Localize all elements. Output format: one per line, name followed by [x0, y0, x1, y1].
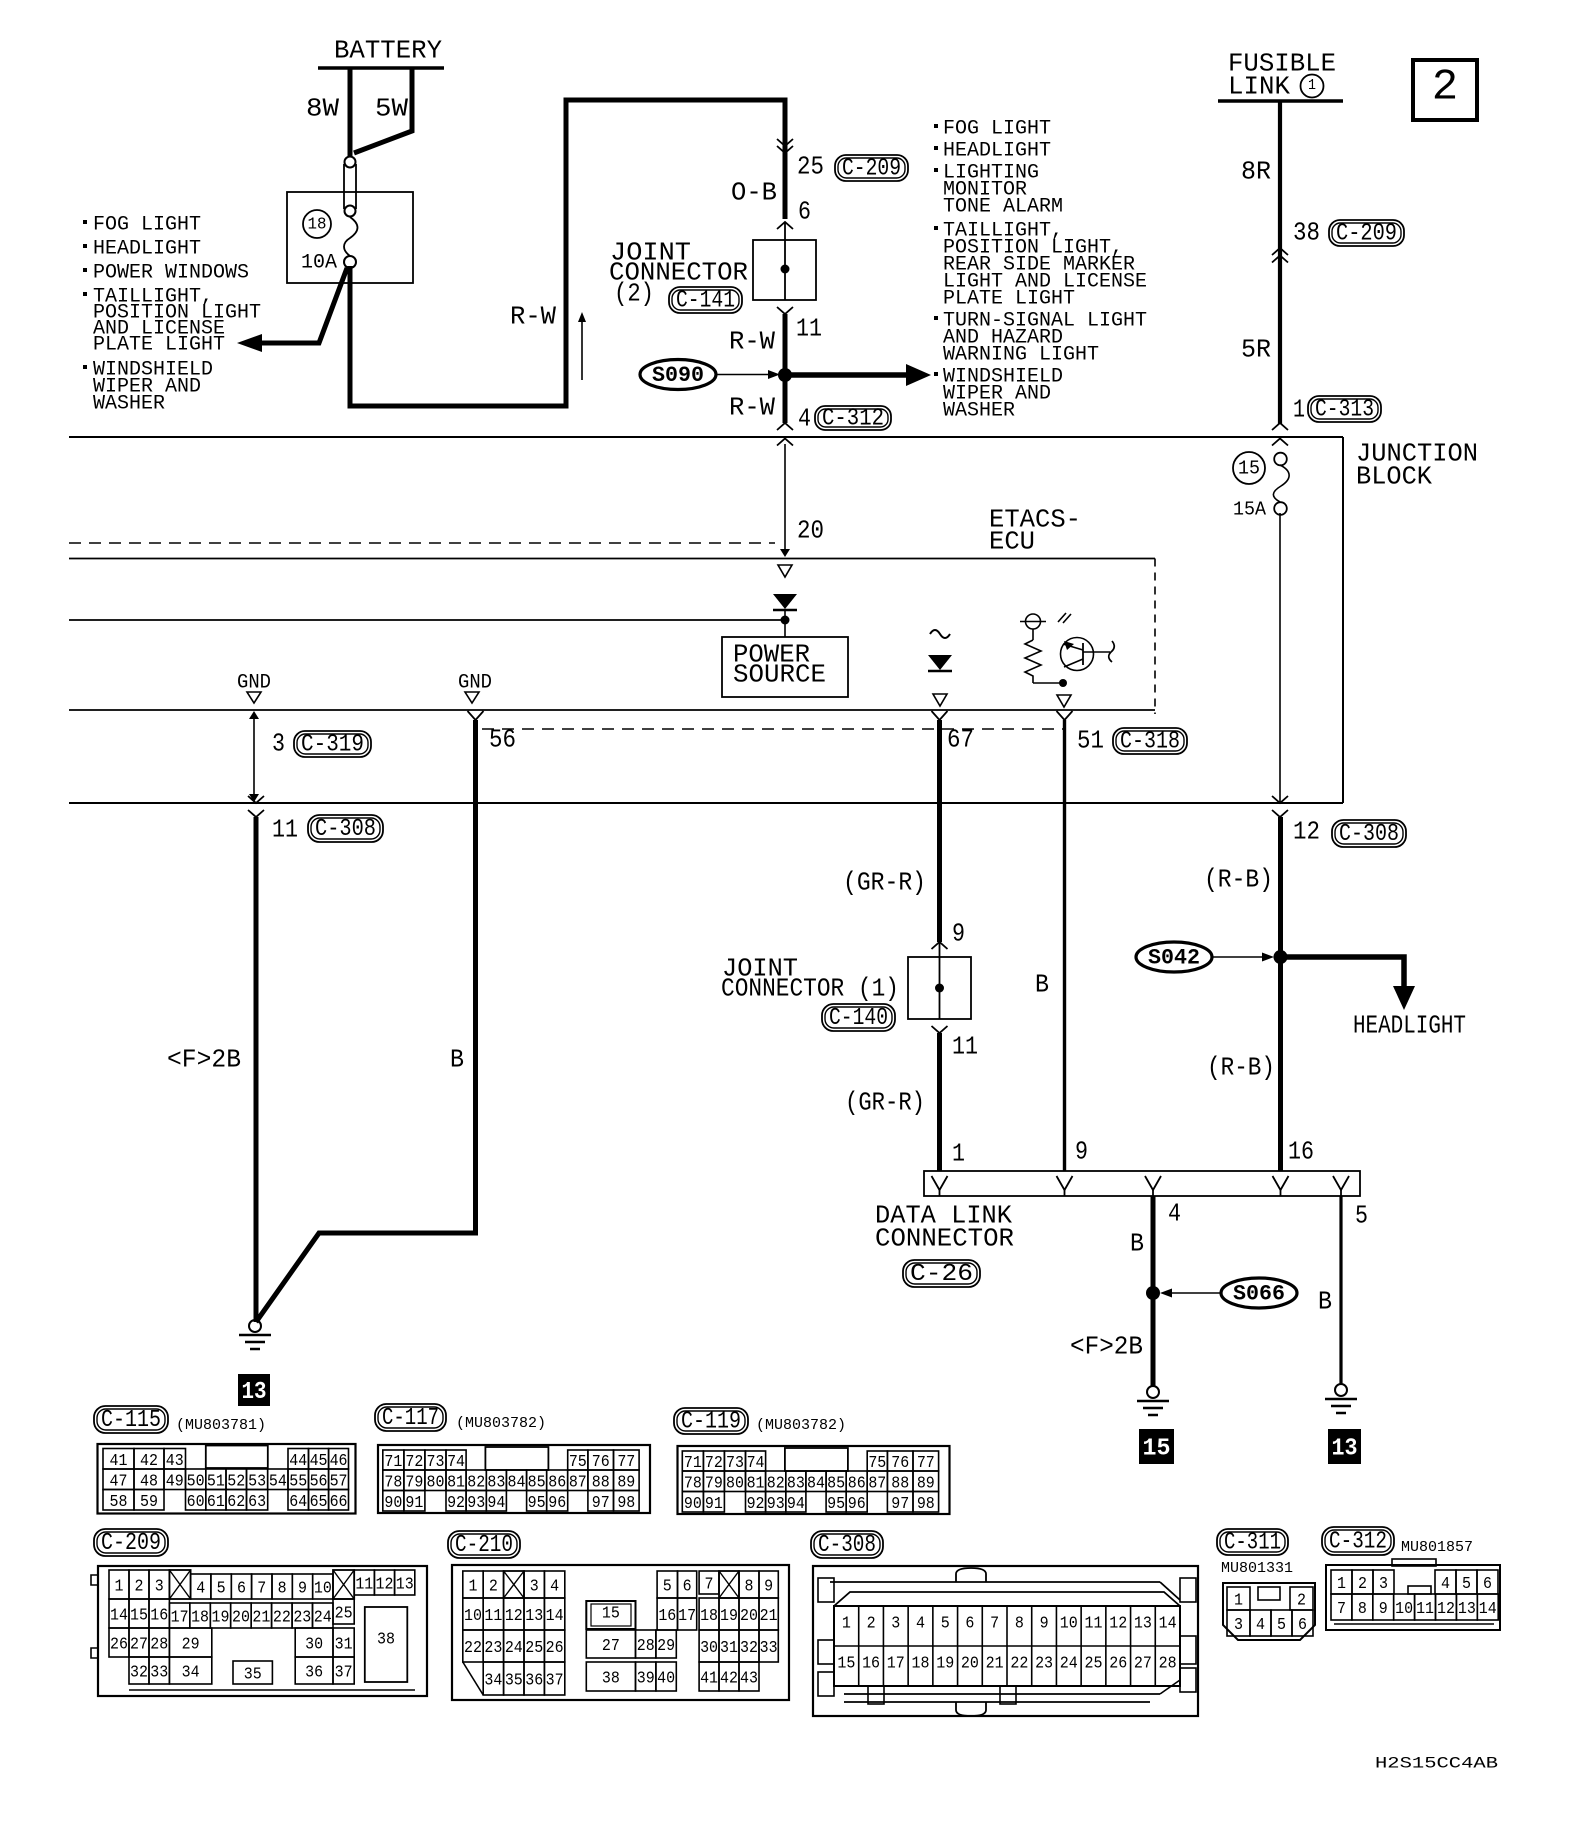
main battery feed wire to joint connector: [350, 100, 785, 406]
svg-text:24: 24: [1060, 1654, 1078, 1673]
wire 8R: [1241, 101, 1280, 248]
svg-text:37: 37: [546, 1672, 564, 1691]
svg-text:13: 13: [1134, 1614, 1152, 1633]
ground wire F2B: [254, 817, 259, 1322]
svg-text:19: 19: [720, 1607, 738, 1626]
svg-text:32: 32: [130, 1664, 148, 1683]
svg-text:63: 63: [248, 1493, 266, 1512]
bus line into diode: [69, 619, 785, 621]
part number MU801857: [1401, 1539, 1473, 1556]
pin 1 label C-313: [1293, 394, 1305, 424]
svg-text:17: 17: [171, 1609, 189, 1628]
pin 38 label: [1293, 217, 1320, 247]
svg-text:6: 6: [798, 196, 811, 226]
svg-text:10: 10: [1060, 1614, 1078, 1633]
svg-text:2: 2: [867, 1614, 876, 1633]
data link connector bar C-26: [924, 1171, 1360, 1196]
svg-text:13: 13: [396, 1576, 414, 1595]
hatch mark above transistor: [1058, 613, 1071, 623]
wire color R-W lower: [729, 392, 775, 422]
wire 51 fork: [1057, 711, 1073, 720]
connector drawing C-210: [452, 1565, 789, 1700]
svg-text:1: 1: [1337, 1575, 1346, 1594]
svg-text:83: 83: [787, 1474, 805, 1493]
svg-text:9: 9: [952, 918, 965, 948]
svg-text:6: 6: [1298, 1616, 1307, 1635]
svg-text:42: 42: [140, 1452, 158, 1471]
svg-text:45: 45: [310, 1452, 328, 1471]
load list: fog light etc (right): [934, 117, 1147, 422]
wire DLC pin 5: [1339, 1196, 1342, 1384]
svg-text:C-308: C-308: [315, 816, 376, 843]
connector table C-117: [378, 1445, 650, 1513]
svg-text:96: 96: [548, 1494, 566, 1513]
svg-text:11: 11: [272, 814, 298, 844]
junction block crossing marks x785: [777, 439, 793, 446]
svg-text:9: 9: [298, 1580, 307, 1599]
svg-text:2: 2: [1432, 62, 1458, 112]
svg-text:38: 38: [1293, 217, 1320, 247]
svg-text:80: 80: [426, 1473, 444, 1492]
svg-text:37: 37: [335, 1664, 353, 1683]
bus line / ETACS top edge: [69, 558, 1155, 560]
connector label C-115: [94, 1406, 168, 1434]
terminal fork pin 6: [777, 222, 793, 240]
svg-text:56: 56: [310, 1472, 328, 1491]
svg-text:R-W: R-W: [729, 392, 775, 422]
svg-text:FOG LIGHT: FOG LIGHT: [943, 117, 1051, 140]
svg-text:11: 11: [1416, 1600, 1434, 1619]
svg-text:33: 33: [760, 1639, 778, 1658]
wire color R-B lower: [1207, 1052, 1275, 1082]
svg-text:20: 20: [797, 515, 824, 545]
svg-text:SOURCE: SOURCE: [733, 659, 826, 689]
junction block label: [1356, 438, 1478, 491]
svg-text:H2S15CC4AB: H2S15CC4AB: [1375, 1755, 1498, 1773]
connector label C-311: [1217, 1529, 1288, 1557]
svg-text:23: 23: [484, 1639, 502, 1658]
thick arrow from fuse to taillight list: [237, 268, 347, 352]
svg-text:5: 5: [217, 1580, 226, 1599]
svg-text:6: 6: [683, 1578, 692, 1597]
svg-text:23: 23: [293, 1609, 311, 1628]
svg-text:95: 95: [528, 1494, 546, 1513]
svg-text:3: 3: [891, 1614, 900, 1633]
wire name B (pin5): [1318, 1286, 1332, 1316]
svg-text:8W: 8W: [306, 93, 339, 123]
svg-text:MU801331: MU801331: [1221, 1560, 1293, 1577]
svg-text:15: 15: [602, 1604, 620, 1623]
svg-text:20: 20: [232, 1609, 250, 1628]
svg-text:8: 8: [1015, 1614, 1024, 1633]
svg-text:(R-B): (R-B): [1204, 864, 1273, 894]
ground G1: [239, 1320, 271, 1349]
svg-text:65: 65: [310, 1493, 328, 1512]
svg-text:66: 66: [330, 1493, 348, 1512]
svg-text:29: 29: [657, 1637, 675, 1656]
svg-text:CONNECTOR: CONNECTOR: [875, 1223, 1014, 1253]
connector drawing C-308: [813, 1566, 1198, 1716]
svg-text:32: 32: [740, 1639, 758, 1658]
svg-text:29: 29: [182, 1636, 200, 1655]
svg-text:R-W: R-W: [510, 301, 556, 331]
svg-text:(MU803782): (MU803782): [456, 1415, 546, 1432]
svg-text:42: 42: [720, 1670, 738, 1689]
svg-text:98: 98: [917, 1495, 935, 1514]
svg-text:WASHER: WASHER: [93, 392, 165, 415]
svg-text:GND: GND: [237, 671, 271, 694]
svg-text:50: 50: [187, 1472, 205, 1491]
svg-text:B: B: [450, 1044, 464, 1074]
pin 20 label: [797, 515, 824, 545]
pin 25 label: [797, 151, 824, 181]
open triangle terminal above diode: [778, 565, 792, 577]
svg-text:49: 49: [166, 1472, 184, 1491]
svg-text:(2): (2): [614, 278, 654, 308]
svg-text:13: 13: [242, 1379, 267, 1406]
svg-text:5R: 5R: [1241, 334, 1271, 364]
svg-text:12: 12: [505, 1607, 523, 1626]
connector label C-312: [1322, 1527, 1394, 1556]
svg-text:ECU: ECU: [989, 526, 1035, 556]
svg-text:17: 17: [678, 1607, 696, 1626]
fusible link 1 label: [1228, 48, 1336, 101]
svg-text:11: 11: [1085, 1614, 1103, 1633]
drawing number H2S15CC4AB: [1375, 1755, 1498, 1773]
wire name (F)2B lower: [1070, 1331, 1143, 1361]
junction block crossing marks x1280: [1272, 439, 1288, 446]
svg-text:26: 26: [1109, 1654, 1127, 1673]
svg-text:4: 4: [1168, 1198, 1181, 1228]
load list: fog light etc (left): [83, 213, 261, 415]
ground G2: [1137, 1386, 1169, 1415]
terminal fork pin 11 below C-141: [777, 307, 793, 314]
wire name B (pin4): [1130, 1228, 1144, 1258]
svg-text:96: 96: [848, 1495, 866, 1514]
svg-text:27: 27: [1134, 1654, 1152, 1673]
wire color R-W upper: [729, 326, 775, 356]
svg-text:21: 21: [252, 1609, 270, 1628]
connector table C-115: [98, 1444, 356, 1514]
splice S090: [640, 360, 780, 390]
svg-text:90: 90: [384, 1494, 402, 1513]
crossing marks pin 12 C-308: [1272, 796, 1288, 817]
svg-text:4: 4: [1441, 1575, 1450, 1594]
connector label C-308 left: [308, 815, 383, 843]
svg-text:33: 33: [150, 1664, 168, 1683]
svg-text:C-313: C-313: [1315, 397, 1374, 424]
svg-text:91: 91: [705, 1495, 723, 1514]
svg-text:81: 81: [447, 1473, 465, 1492]
wire color R-B upper: [1204, 864, 1273, 894]
svg-text:MU801857: MU801857: [1401, 1539, 1473, 1556]
svg-text:S042: S042: [1148, 945, 1200, 970]
svg-text:LINK: LINK: [1228, 71, 1290, 101]
svg-text:16: 16: [150, 1607, 168, 1626]
pin 3 C-319 double arrow: [249, 711, 259, 802]
svg-text:4: 4: [1256, 1616, 1265, 1635]
svg-text:94: 94: [487, 1494, 505, 1513]
svg-text:94: 94: [787, 1495, 805, 1514]
pin 12 label C-308: [1293, 816, 1320, 846]
wire GR-R to DLC: [937, 1033, 942, 1171]
transistor Q1: [1061, 638, 1115, 671]
svg-text:GND: GND: [458, 671, 492, 694]
svg-text:B: B: [1130, 1228, 1144, 1258]
connector label C-117: [375, 1404, 446, 1432]
svg-text:85: 85: [827, 1474, 845, 1493]
svg-text:62: 62: [227, 1493, 245, 1512]
svg-text:57: 57: [330, 1472, 348, 1491]
svg-text:1: 1: [469, 1578, 478, 1597]
pin 11 label below C-140: [952, 1031, 978, 1061]
wire 5W from battery: [354, 68, 412, 153]
svg-text:POWER WINDOWS: POWER WINDOWS: [93, 261, 249, 284]
terminal chevron pin 4: [777, 423, 793, 430]
svg-text:97: 97: [891, 1495, 909, 1514]
svg-text:84: 84: [807, 1474, 825, 1493]
svg-text:91: 91: [405, 1494, 423, 1513]
svg-text:6: 6: [965, 1614, 974, 1633]
svg-text:15: 15: [837, 1654, 855, 1673]
svg-text:41: 41: [700, 1670, 718, 1689]
svg-text:10: 10: [1395, 1600, 1413, 1619]
svg-text:21: 21: [986, 1654, 1004, 1673]
svg-text:5: 5: [663, 1578, 672, 1597]
svg-text:26: 26: [546, 1639, 564, 1658]
wire name (F)2B: [167, 1044, 241, 1074]
wire color GR-R upper: [843, 867, 926, 897]
svg-text:88: 88: [592, 1473, 610, 1492]
svg-text:1: 1: [1308, 77, 1316, 94]
svg-text:9: 9: [1075, 1136, 1088, 1166]
junction dot S066: [1146, 1286, 1160, 1300]
wire O-B upper: [783, 146, 788, 219]
fuse rating 10A: [301, 251, 337, 274]
svg-text:19: 19: [212, 1609, 230, 1628]
svg-text:(MU803782): (MU803782): [756, 1417, 846, 1434]
wire color O-B: [731, 177, 777, 207]
svg-text:7: 7: [257, 1580, 266, 1599]
svg-text:O-B: O-B: [731, 177, 777, 207]
svg-text:25: 25: [797, 151, 824, 181]
wire 67 fork: [932, 711, 948, 720]
svg-text:28: 28: [637, 1637, 655, 1656]
svg-text:10: 10: [464, 1607, 482, 1626]
svg-text:61: 61: [207, 1493, 225, 1512]
joint connector (1) labels: [721, 953, 899, 1032]
dedicated fuse box: [287, 192, 413, 283]
dashed link line pins 56-67-51: [482, 728, 1064, 730]
svg-text:89: 89: [917, 1474, 935, 1493]
connector label C-308 right: [1332, 820, 1406, 848]
svg-text:6: 6: [1483, 1575, 1492, 1594]
connector label C-313: [1308, 396, 1381, 424]
svg-text:C-119: C-119: [681, 1409, 741, 1436]
svg-text:C-141: C-141: [676, 288, 735, 315]
terminal fork pin 9: [932, 942, 948, 957]
splice S042: [1136, 942, 1274, 972]
pin 16 label DLC: [1288, 1136, 1314, 1166]
svg-text:27: 27: [130, 1636, 148, 1655]
svg-text:7: 7: [990, 1614, 999, 1633]
svg-text:30: 30: [305, 1636, 323, 1655]
svg-text:C-209: C-209: [101, 1530, 161, 1557]
svg-text:2: 2: [1358, 1575, 1367, 1594]
ground number 13: [238, 1374, 270, 1406]
pin 9 label DLC: [1075, 1136, 1088, 1166]
svg-text:79: 79: [405, 1473, 423, 1492]
svg-text:59: 59: [140, 1493, 158, 1512]
pin 9 label C-140: [952, 918, 965, 948]
svg-text:86: 86: [548, 1473, 566, 1492]
ground G3: [1325, 1384, 1357, 1413]
fusible link symbol (circle-capsule-circle): [344, 157, 356, 217]
svg-text:18: 18: [911, 1654, 929, 1673]
junction dot S090: [778, 368, 792, 382]
svg-text:<F>2B: <F>2B: [1070, 1331, 1143, 1361]
svg-text:34: 34: [484, 1672, 502, 1691]
ground number 13 right: [1328, 1429, 1361, 1464]
svg-text:C-115: C-115: [101, 1407, 161, 1434]
svg-text:B: B: [1035, 969, 1049, 999]
svg-text:C-312: C-312: [1329, 1529, 1387, 1556]
wire name B mid: [1035, 969, 1049, 999]
ETACS-ECU label: [989, 504, 1081, 556]
connector label C-209: [835, 155, 908, 183]
svg-text:83: 83: [487, 1473, 505, 1492]
connector drawing C-312: [1326, 1559, 1500, 1630]
svg-text:(MU803781): (MU803781): [176, 1417, 266, 1434]
svg-text:52: 52: [227, 1472, 245, 1491]
svg-text:14: 14: [110, 1607, 128, 1626]
svg-text:92: 92: [747, 1495, 765, 1514]
svg-text:2: 2: [489, 1578, 498, 1597]
power source box: [722, 637, 848, 697]
svg-text:HEADLIGHT: HEADLIGHT: [93, 237, 201, 260]
svg-text:31: 31: [720, 1639, 738, 1658]
svg-text:36: 36: [305, 1664, 323, 1683]
crossing marks pin 11 C-308: [248, 796, 264, 817]
joint connector (2) box C-141: [753, 240, 816, 300]
thin wire pin 20 into ETACS: [780, 444, 790, 557]
svg-text:25: 25: [525, 1639, 543, 1658]
svg-text:5: 5: [1355, 1200, 1368, 1230]
svg-text:18: 18: [700, 1607, 718, 1626]
wire resistor to dot: [1033, 679, 1067, 687]
thick arrow to windshield wiper list: [785, 364, 931, 386]
svg-text:67: 67: [947, 724, 974, 754]
svg-text:4: 4: [916, 1614, 925, 1633]
svg-text:48: 48: [140, 1472, 158, 1491]
svg-text:97: 97: [592, 1494, 610, 1513]
HEADLIGHT label: [1353, 1010, 1466, 1040]
ETACS box dashed right edge: [1154, 559, 1156, 715]
bus dashed line upper: [69, 542, 775, 544]
svg-text:27: 27: [602, 1637, 620, 1656]
terminal fork pin 11 below C-140: [932, 1026, 948, 1033]
wire 56 fork: [468, 711, 484, 720]
svg-text:14: 14: [1479, 1600, 1497, 1619]
svg-text:1: 1: [1234, 1592, 1243, 1611]
svg-text:7: 7: [705, 1576, 714, 1595]
svg-text:8R: 8R: [1241, 156, 1271, 186]
svg-text:53: 53: [248, 1472, 266, 1491]
splice S066: [1160, 1278, 1297, 1308]
svg-text:93: 93: [767, 1495, 785, 1514]
connector label C-312: [815, 406, 891, 433]
battery B1 label: [334, 35, 442, 65]
wire fuse to pin 12: [1279, 513, 1281, 803]
diode D1: [773, 594, 797, 620]
svg-text:BLOCK: BLOCK: [1356, 461, 1432, 491]
svg-text:43: 43: [166, 1452, 184, 1471]
svg-text:11: 11: [355, 1576, 373, 1595]
svg-text:9: 9: [1040, 1614, 1049, 1633]
svg-text:39: 39: [637, 1670, 655, 1689]
svg-text:89: 89: [617, 1473, 635, 1492]
data link connector labels: [875, 1200, 1014, 1288]
svg-text:81: 81: [747, 1474, 765, 1493]
junction block fuse 15A: [1233, 452, 1289, 521]
svg-text:1: 1: [842, 1614, 851, 1633]
svg-text:C-311: C-311: [1224, 1530, 1281, 1557]
svg-text:84: 84: [508, 1473, 526, 1492]
fusible link bar: [1218, 99, 1343, 103]
svg-text:3: 3: [1234, 1616, 1243, 1635]
diode D2: [928, 655, 952, 671]
pin 51 label: [1077, 725, 1104, 755]
svg-text:14: 14: [1159, 1614, 1177, 1633]
svg-text:82: 82: [767, 1474, 785, 1493]
svg-text:1: 1: [115, 1578, 124, 1597]
connector label C-210 bottom: [448, 1531, 520, 1559]
svg-text:4: 4: [798, 403, 811, 433]
svg-text:15: 15: [130, 1607, 148, 1626]
pin 1 label DLC: [952, 1138, 965, 1168]
svg-text:2: 2: [135, 1578, 144, 1597]
svg-text:13: 13: [1332, 1436, 1358, 1463]
svg-text:5: 5: [1462, 1575, 1471, 1594]
svg-text:<F>2B: <F>2B: [167, 1044, 241, 1074]
svg-text:25: 25: [1085, 1654, 1103, 1673]
svg-text:4: 4: [196, 1580, 205, 1599]
svg-text:38: 38: [377, 1630, 395, 1649]
svg-text:41: 41: [110, 1452, 128, 1471]
svg-text:15: 15: [1238, 458, 1260, 480]
pin 5 label: [1355, 1200, 1368, 1230]
svg-text:(GR-R): (GR-R): [843, 867, 926, 897]
svg-text:11: 11: [796, 313, 822, 343]
svg-text:S090: S090: [652, 363, 704, 388]
circled fuse number 18: [303, 210, 331, 238]
svg-text:S066: S066: [1233, 1281, 1285, 1306]
svg-text:80: 80: [726, 1474, 744, 1493]
connector label C-209 bottom: [94, 1529, 168, 1557]
pin 67 label: [947, 724, 974, 754]
wire GR-R from pin 67: [937, 720, 942, 942]
svg-text:WARNING LIGHT: WARNING LIGHT: [943, 343, 1099, 366]
wire DLC pin 4: [1151, 1196, 1156, 1387]
svg-text:8: 8: [745, 1578, 754, 1597]
AC symbol tilde: [930, 630, 950, 638]
svg-text:23: 23: [1035, 1654, 1053, 1673]
joint connector (2) labels: [609, 237, 748, 314]
svg-text:51: 51: [207, 1472, 225, 1491]
svg-text:B: B: [1318, 1286, 1332, 1316]
svg-text:4: 4: [550, 1578, 559, 1597]
pin 11 label C-308: [272, 814, 298, 844]
